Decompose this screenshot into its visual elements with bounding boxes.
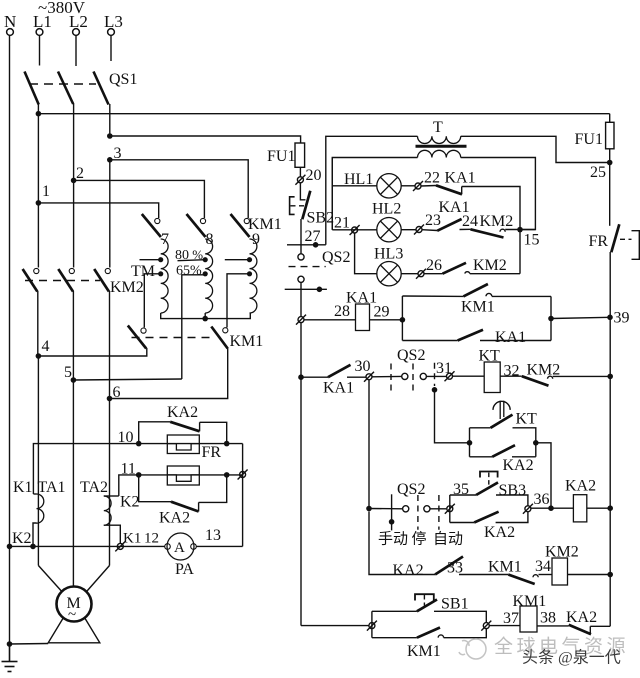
wire KM2 to rail right <box>553 375 611 377</box>
contact KM1 hold blade <box>463 284 488 296</box>
KA2 bypass bottom tick <box>198 502 200 511</box>
QS2 rowKT column2 dashed <box>412 364 414 396</box>
wire riser meter loop <box>242 444 244 547</box>
terminal L3 <box>108 29 115 36</box>
junction dot line11 left <box>136 472 142 478</box>
svg-text:~: ~ <box>68 607 76 623</box>
wire line6 <box>110 348 228 399</box>
contact KM2 pole3 circle <box>105 268 110 273</box>
QS2 rowKT column3 dashed <box>434 363 436 386</box>
QS2 left dashes <box>289 266 326 268</box>
terminal 26 <box>416 269 426 279</box>
wire pole to 31 <box>426 375 446 377</box>
wire bus corner to FU1 right <box>609 114 611 123</box>
wire line A to left FU1 <box>110 136 301 143</box>
node 5 dot <box>71 377 77 383</box>
terminal 31 <box>445 371 455 381</box>
transformer T core bar <box>416 145 467 148</box>
QS2 rowKT column1 dashed <box>390 364 392 396</box>
pushbutton SB1 stem dashed <box>423 595 425 606</box>
KA2 branch bottom left <box>450 522 474 524</box>
KA2 bypass top branch <box>139 422 171 444</box>
wire TM coil2 bottom stub <box>204 313 206 319</box>
svg-text:L2: L2 <box>69 12 88 31</box>
wire 26 segment <box>424 273 443 275</box>
svg-text:K2: K2 <box>120 494 140 511</box>
terminal N <box>7 29 14 36</box>
svg-text:QS2: QS2 <box>397 481 425 498</box>
FR heater bracket <box>632 231 640 260</box>
junction dot 39 <box>607 315 613 321</box>
TM coil 2 <box>205 239 212 313</box>
svg-text:KA2: KA2 <box>566 609 597 626</box>
wire 28 to coil <box>304 319 356 321</box>
QS2 rowH column2 dashed <box>417 495 419 530</box>
contact KM1 jog hook <box>438 635 443 638</box>
svg-text:21: 21 <box>334 215 350 232</box>
KM1 star linkage dashed <box>132 337 211 339</box>
contact KM2 row3 hook <box>465 272 470 274</box>
junction dot 25 <box>607 160 613 166</box>
wire KT coil to KM2 blade <box>500 375 522 377</box>
terminal L1 <box>36 29 43 36</box>
svg-text:KM2: KM2 <box>473 257 507 274</box>
wire 33 to KM1 <box>459 574 508 576</box>
TM coil3 tap 65 wire to KM1 star right <box>227 274 250 328</box>
contact KA1 row1 blade <box>436 185 462 194</box>
switch QS1 blade 2 <box>58 72 73 105</box>
svg-text:手动: 手动 <box>378 531 408 548</box>
wire QS2 dot down to loop <box>435 390 470 443</box>
SB1 branch top left <box>372 610 417 612</box>
fuse FU1 right body <box>606 122 614 149</box>
svg-text:停: 停 <box>412 531 427 548</box>
fuse FU1 left body <box>295 143 305 167</box>
motor M circle <box>57 587 92 622</box>
wire phase1 to motor <box>37 356 39 566</box>
relay coil KM2 <box>552 558 568 585</box>
pushbutton SB1 blade <box>417 600 437 612</box>
svg-text:K1: K1 <box>13 479 33 496</box>
svg-text:KM1: KM1 <box>407 643 441 660</box>
wire QS2 to 28 <box>300 282 302 316</box>
terminal L2 <box>73 29 80 36</box>
wire SB2 to 27 <box>300 219 302 254</box>
TM coil3 tap 65 dot <box>247 271 252 276</box>
svg-text:TM: TM <box>131 263 155 280</box>
wire line13 right <box>196 545 242 547</box>
junction dot node2 <box>71 178 77 184</box>
junction dot bar28 <box>317 287 323 293</box>
contact KM1 star left circle <box>141 328 146 333</box>
loop bottom branch left <box>402 340 457 342</box>
TA2 coil <box>104 496 111 525</box>
TM coil1 tap 65 wire to KM1 star left <box>144 274 160 328</box>
contact KM1 pole7 blade <box>142 214 161 237</box>
contact KA1 hold blade <box>458 330 483 341</box>
svg-text:38: 38 <box>540 610 556 627</box>
contact KM2 row2 hook <box>500 229 505 232</box>
TM coil2 tap 65 dot <box>203 271 208 276</box>
svg-text:FU1: FU1 <box>575 131 603 148</box>
wire rail15 down <box>519 230 521 274</box>
junction dot 15 <box>517 227 523 233</box>
wire 31 to KT coil <box>453 375 485 377</box>
KM1 branch bottom right <box>444 629 487 638</box>
svg-text:KM2: KM2 <box>480 213 514 230</box>
wire 37 to KM1 coil <box>489 625 520 627</box>
junction dot loop right <box>548 316 554 322</box>
svg-text:2: 2 <box>76 165 84 182</box>
wire FR to 39 <box>609 252 611 377</box>
contact KM1 hold hook <box>486 293 492 296</box>
contact KA2 33 blade <box>435 557 463 575</box>
switch QS1 blade 3 <box>94 72 109 105</box>
svg-text:20: 20 <box>306 167 322 184</box>
TM bottom tie line <box>161 313 251 319</box>
KT delay umbrella <box>493 401 510 410</box>
wire row2 to 15 <box>505 229 535 231</box>
KA2 bypass bottom branch <box>139 475 171 502</box>
svg-text:TA2: TA2 <box>80 479 108 496</box>
TM coil2 tap 80 stub <box>178 260 206 261</box>
wire phase2 KM2 to node5 <box>72 291 74 380</box>
svg-text:39: 39 <box>614 310 630 327</box>
svg-text:QS1: QS1 <box>109 71 137 88</box>
wire line4 <box>38 348 146 356</box>
TM coil2 tap 65 wire down to line5 <box>182 275 205 379</box>
wire T secondary right to node 15 <box>461 158 536 230</box>
wire line5 <box>73 379 181 380</box>
terminal K1 TA2 <box>115 541 125 551</box>
KA2 branch bottom right <box>496 512 528 523</box>
contact KA2 38 blade <box>569 625 591 635</box>
transformer T secondary winding <box>418 150 461 157</box>
SB1 KM1 parallel box left edge <box>371 611 373 637</box>
lamp HL1 <box>377 174 401 198</box>
wire line13 left <box>10 545 165 547</box>
bar 28 with dot <box>285 288 327 290</box>
contact KA2 SB3 bypass blade <box>474 512 498 523</box>
loop top branch right <box>492 295 551 297</box>
wire 21 to HL2 <box>332 229 377 231</box>
svg-text:34: 34 <box>535 558 551 575</box>
svg-text:24: 24 <box>462 213 478 230</box>
svg-text:KA2: KA2 <box>167 404 198 421</box>
terminal 20 <box>295 175 305 185</box>
junction dot node3 upper <box>107 133 113 139</box>
wire line1 to switch7 <box>38 203 158 218</box>
K2 element box <box>167 466 199 485</box>
wire 36 to KA2 coil <box>531 507 573 509</box>
svg-text:KA2: KA2 <box>159 510 190 527</box>
watermark logo circle <box>459 639 486 659</box>
wire 24 segment <box>460 228 471 230</box>
SB3 KA2 parallel box left edge <box>449 495 451 523</box>
wire L1 stub <box>39 36 41 66</box>
wire 22 to blade <box>421 185 436 188</box>
switch QS1 blade 1 <box>25 72 39 105</box>
TM coil 3 <box>250 239 257 313</box>
terminal 35 <box>445 504 455 514</box>
relay coil KA1 <box>356 304 370 331</box>
lamp HL3 <box>377 262 401 286</box>
terminal 30 <box>364 372 374 382</box>
wire HL1 to 22 <box>401 185 415 187</box>
contact FR blade <box>611 224 619 252</box>
QS2 rowH column3 dashed <box>438 495 440 530</box>
loopKT bottom branch right <box>512 456 536 458</box>
svg-text:L3: L3 <box>104 12 123 31</box>
svg-text:25: 25 <box>590 164 606 181</box>
contact KM1 34 hook <box>533 575 538 578</box>
QS2 rowKT circle1 <box>402 373 408 379</box>
wire L2 stub <box>75 36 77 67</box>
svg-text:TA1: TA1 <box>38 479 66 496</box>
contact KM1 pole7 fixed circle <box>155 218 160 223</box>
loopKT left edge <box>469 428 471 457</box>
ammeter PA outer <box>167 533 194 560</box>
relay coil KT <box>484 362 500 393</box>
FR heater notch <box>167 444 199 450</box>
junction dot loopKT left <box>467 440 473 446</box>
svg-text:13: 13 <box>205 527 221 544</box>
contact KM1 star right circle <box>223 328 228 333</box>
lamp rail left upper <box>331 158 333 230</box>
wire phase1 down to KM2 pole1 <box>37 203 39 268</box>
junction dot TM bottom mid <box>202 316 208 322</box>
TM coil1 tap 80 stub <box>140 259 161 261</box>
contact KM1 pole8 fixed circle <box>200 218 205 223</box>
contact KA2 loop blade <box>492 445 515 457</box>
svg-text:头条 @泉一代: 头条 @泉一代 <box>522 649 621 667</box>
K2 element notch <box>167 475 199 481</box>
contact KA2 38 tick <box>589 626 591 634</box>
ground symbol <box>2 644 18 672</box>
contact KM1 pole9 fixed circle <box>244 218 249 223</box>
QS1 linkage dashed <box>29 83 96 85</box>
KA2 bypass bottom blade <box>171 502 199 512</box>
wire 20 to SB2 <box>300 183 305 200</box>
wire N vertical full <box>9 36 11 645</box>
lamp HL2 <box>377 218 401 242</box>
ammeter left terminal <box>165 544 171 550</box>
terminal 22 <box>413 181 423 191</box>
wire N to pedestal <box>10 643 49 646</box>
wire row1 to rail15 <box>462 187 520 230</box>
contact KM1 jog blade <box>417 628 440 638</box>
svg-text:KA1: KA1 <box>323 380 354 397</box>
svg-text:KA1: KA1 <box>495 329 526 346</box>
svg-text:SB1: SB1 <box>441 596 469 613</box>
QS2 rowKT circle2 <box>420 373 426 379</box>
svg-text:FR: FR <box>589 233 609 250</box>
pushbutton SB3 blade <box>476 482 498 495</box>
wire L3 stub <box>110 36 112 62</box>
wire loop to 39 <box>551 317 610 318</box>
loop bottom branch right <box>480 340 551 342</box>
svg-text:A: A <box>174 540 185 556</box>
wire phase1 KM2 to node4 <box>37 291 39 356</box>
svg-text:65%: 65% <box>176 264 202 279</box>
svg-text:KA2: KA2 <box>503 457 534 474</box>
wire FU1 right to 25 <box>609 149 611 226</box>
contact KM1 34 blade <box>508 575 534 585</box>
pushbutton SB3 plunger <box>480 472 498 478</box>
svg-text:PA: PA <box>175 561 194 578</box>
TM coil1 tap 65 dot <box>158 271 163 276</box>
loopKT top branch right <box>513 428 536 457</box>
pushbutton SB2 actuator <box>290 197 295 215</box>
svg-text:K2: K2 <box>12 530 32 547</box>
TM coil3 tap 80 stub <box>225 259 250 261</box>
junction dot node1 <box>36 200 42 206</box>
contact KM1 pole8 blade <box>187 214 206 237</box>
wire loopKT to row36 <box>536 443 551 508</box>
junction dot KT row left <box>298 374 304 380</box>
svg-text:30: 30 <box>355 358 371 375</box>
contact KM1 pole9 blade <box>231 214 250 237</box>
TM coil1 tap 80 dot <box>158 257 163 262</box>
KM1 branch bottom left <box>372 637 417 639</box>
junction dot bus <box>36 111 42 117</box>
wire HL3 to 26 <box>401 273 418 275</box>
pushbutton SB2 link dashed <box>291 205 305 207</box>
contact KM2 row2 blade <box>471 229 504 237</box>
wire T secondary left to lamp rail <box>332 158 417 230</box>
contact KM1 star right blade <box>211 327 227 349</box>
junction dot KM2 coil rail <box>607 572 613 578</box>
transformer T primary winding <box>418 136 461 143</box>
junction dot bar27 <box>313 242 319 248</box>
wire phase2 vertical below QS1 <box>73 104 75 181</box>
junction dot node3 lower <box>107 157 113 163</box>
svg-text:SB2: SB2 <box>307 210 335 227</box>
wire phase3 vertical below QS1 <box>109 104 111 136</box>
svg-text:37: 37 <box>503 610 519 627</box>
loopKT bottom branch left <box>470 456 493 458</box>
terminal 28 <box>296 315 306 325</box>
wire to KA1-30 blade <box>301 376 328 378</box>
KA2 bypass top blade <box>170 422 199 432</box>
switch QS2 left upper circle <box>298 254 304 260</box>
svg-text:22: 22 <box>424 170 440 187</box>
svg-text:KA2: KA2 <box>393 562 424 579</box>
wire HL1 left <box>332 185 377 187</box>
contact KM2 pole2 circle <box>69 268 74 273</box>
wire 38 to KA2 <box>537 625 569 627</box>
svg-text:31: 31 <box>436 360 452 377</box>
loopKT top branch left <box>470 427 491 429</box>
contact KM2 32 blade <box>522 376 549 386</box>
TA1 coil <box>37 494 44 523</box>
junction dot K2 line at N <box>7 544 13 550</box>
svg-text:T: T <box>433 119 443 136</box>
node 6 dot <box>107 396 113 402</box>
QS2 rowH position dot <box>389 519 395 525</box>
KT delay stem <box>500 401 504 419</box>
terminal 21 <box>350 225 360 235</box>
wire HL2 to 23 <box>401 229 416 231</box>
relay coil KA2 <box>573 495 586 522</box>
TA1 top jog <box>33 493 36 495</box>
junction dot TA1 bottom <box>30 544 36 550</box>
wire KA2 to rail <box>590 625 610 627</box>
svg-text:KM1: KM1 <box>230 333 264 350</box>
wire phase3 KM2 to node6 <box>109 291 111 399</box>
svg-text:KA2: KA2 <box>565 478 596 495</box>
wire line2 to switch8 <box>74 180 205 218</box>
svg-text:自动: 自动 <box>433 531 463 548</box>
relay coil KM1 <box>520 606 537 632</box>
wire coil to loop <box>370 319 403 321</box>
QS2 rowKT position dot <box>432 387 438 393</box>
wire line10 <box>33 444 242 494</box>
contact KA1 row2 blade <box>437 219 461 231</box>
QS2 rowH circle1 <box>403 506 409 512</box>
svg-text:QS2: QS2 <box>397 347 425 364</box>
svg-text:29: 29 <box>374 304 390 321</box>
terminal 36 <box>523 504 533 514</box>
wire row H to pole <box>369 508 403 510</box>
svg-text:QS2: QS2 <box>322 249 350 266</box>
KM2 linkage dashed <box>25 280 100 282</box>
switch QS2 left lower circle <box>298 276 304 282</box>
contact KM1 star left blade <box>128 326 146 349</box>
wire rail28 down <box>300 323 302 626</box>
contact KM2 32 hook <box>548 376 553 379</box>
TM coil2 tap 80 dot <box>203 257 208 262</box>
contact KM2 pole3 blade <box>94 269 109 292</box>
svg-text:15: 15 <box>524 232 540 249</box>
svg-text:KM1: KM1 <box>488 559 522 576</box>
svg-text:K1: K1 <box>123 531 141 547</box>
junction dot line10 right <box>224 441 230 447</box>
svg-text:26: 26 <box>426 257 442 274</box>
svg-text:HL2: HL2 <box>372 201 401 218</box>
svg-text:5: 5 <box>64 364 72 381</box>
pushbutton SB1 plunger <box>415 594 434 600</box>
TA1 bottom lead <box>33 523 37 546</box>
wire phase1 vertical below QS1 <box>37 104 39 203</box>
svg-text:L1: L1 <box>33 12 52 31</box>
wire KA2 coil to rail <box>587 507 610 509</box>
svg-text:FR: FR <box>202 444 222 461</box>
wire to terminal 30 <box>347 376 366 378</box>
svg-text:KM1: KM1 <box>513 593 547 610</box>
junction dot loop left <box>400 317 406 323</box>
wire line3 to switch9 <box>110 160 248 218</box>
contact KM2 row3 blade <box>443 263 467 274</box>
terminal on riser <box>238 470 248 480</box>
svg-text:HL3: HL3 <box>374 246 403 263</box>
KA2 bypass top tick <box>199 422 201 431</box>
FR link dashed <box>620 238 632 240</box>
svg-text:KA1: KA1 <box>445 170 476 187</box>
KA2 bypass bottom right <box>199 475 227 503</box>
KA2 bypass top right <box>200 422 227 443</box>
svg-text:32: 32 <box>504 363 520 380</box>
wire FU1 left to terminal 20 <box>299 167 301 176</box>
QS2 rowH circle2 <box>424 506 430 512</box>
wire phase3 to motor <box>109 399 111 566</box>
SB1 branch top right <box>434 611 486 622</box>
svg-text:KT: KT <box>516 411 538 428</box>
FR heater element box <box>167 435 199 454</box>
terminal 23 <box>414 225 424 235</box>
wire 34 to KM2 coil <box>539 574 553 576</box>
svg-text:1: 1 <box>42 183 50 200</box>
